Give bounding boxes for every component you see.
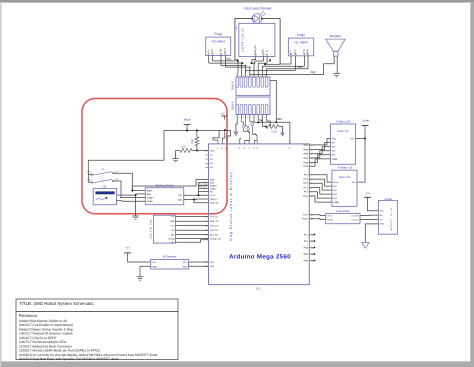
svg-text:32: 32 bbox=[205, 225, 207, 228]
pin PH6 of U1 bbox=[303, 161, 313, 164]
junction vbatt symbol bbox=[186, 130, 188, 132]
wire battery minus to ground below bbox=[135, 195, 137, 216]
svg-text:PL2: PL2 bbox=[304, 233, 309, 236]
wire bus drop 6 to J1 bbox=[257, 63, 259, 73]
svg-text:SDA: SDA bbox=[210, 265, 215, 268]
svg-text:GND: GND bbox=[152, 265, 157, 268]
wire vbatt rail to R motor bbox=[359, 138, 365, 182]
svg-text:U2: U2 bbox=[103, 185, 107, 188]
indicator LED DS3 bbox=[250, 118, 254, 125]
transistor Q2 bbox=[252, 126, 257, 141]
wire rail right end drop bbox=[227, 130, 231, 140]
svg-text:3: 3 bbox=[243, 116, 244, 119]
resistor R1 15K bbox=[191, 130, 199, 150]
svg-text:ENB: ENB bbox=[332, 158, 337, 161]
pin Gnd of Ping2 bbox=[294, 50, 297, 71]
module U3 LIDAR-Lite v2 bbox=[239, 23, 275, 56]
svg-text:ChgIn+: ChgIn+ bbox=[210, 184, 218, 187]
svg-text:PC3: PC3 bbox=[303, 186, 308, 189]
svg-text:Gnd: Gnd bbox=[225, 147, 228, 150]
pin Vin top of U1 bbox=[221, 141, 224, 150]
wire chg stat disp row 3 bbox=[178, 225, 209, 227]
module IR Detector bbox=[151, 260, 189, 270]
pin 40 top of U1 bbox=[256, 141, 259, 149]
wire U1 to R motor row 3 bbox=[314, 183, 332, 190]
pin Vss of R motor bbox=[352, 181, 359, 184]
svg-text:PB5: PB5 bbox=[304, 153, 309, 156]
pin 7 of J2 bbox=[260, 104, 264, 119]
pin 2 of U2 bbox=[117, 200, 123, 202]
wire chg stat disp row 6 bbox=[178, 237, 209, 239]
ground IR detector bbox=[137, 266, 144, 280]
svg-text:15K: 15K bbox=[191, 139, 194, 144]
svg-text:8: 8 bbox=[264, 116, 265, 119]
wire bus drop 4 to J1 bbox=[249, 67, 252, 73]
pin Hi Tx of shifter bbox=[327, 214, 333, 217]
wire U1 to L motor row 5 bbox=[314, 155, 331, 163]
pin 6 of J1 bbox=[256, 73, 260, 87]
svg-text:5.1K: 5.1K bbox=[271, 130, 277, 133]
pin Tx of VLidar bbox=[380, 218, 383, 221]
svg-text:Ping2: Ping2 bbox=[297, 33, 305, 37]
pin Gnd top of U1 bbox=[225, 141, 228, 150]
junction divider mid bbox=[196, 150, 198, 152]
svg-text:Vin: Vin bbox=[221, 147, 224, 150]
junction top bus e bbox=[269, 60, 271, 62]
wire Ping2 Gnd long run bbox=[246, 70, 296, 73]
svg-text:Orang: Orang bbox=[168, 237, 175, 240]
connector J1 TBLK-8 bbox=[236, 77, 270, 95]
pin In4 of L motor bbox=[332, 154, 336, 157]
wire bus drop 3 to J1 bbox=[245, 66, 248, 74]
module U2 charge monitor bbox=[93, 185, 116, 204]
svg-text:Pw: Pw bbox=[210, 190, 213, 193]
pin Grn of Chg Stat Disp bbox=[171, 225, 178, 228]
svg-text:IR Detector: IR Detector bbox=[163, 255, 177, 258]
wire U1 to L motor row 6 bbox=[314, 159, 331, 166]
resistor R3 5.1K bbox=[266, 125, 279, 134]
pin PB2 of U1 bbox=[304, 253, 316, 256]
pin GND of U3 bbox=[262, 49, 265, 61]
module DS4 Chg Stat Disp bbox=[154, 215, 176, 243]
pin 6 of J2 bbox=[256, 104, 260, 119]
svg-text:SDA: SDA bbox=[183, 265, 188, 268]
pin PH5 of U1 bbox=[303, 165, 313, 168]
pin PB7 of U1 bbox=[304, 144, 314, 147]
svg-text:+5v: +5v bbox=[366, 192, 371, 195]
wire Batt- stub into U1 bbox=[199, 182, 209, 184]
wire U1 to L motor row 1 bbox=[314, 138, 331, 145]
wire U1 to R motor row 6 bbox=[314, 196, 332, 202]
svg-text:Gry: Gry bbox=[311, 70, 316, 74]
svg-text:19: 19 bbox=[310, 218, 312, 221]
module Level Shifter bbox=[326, 213, 360, 223]
svg-text:Low Tx: Low Tx bbox=[352, 219, 360, 222]
wire left jog into Vbatt pin bbox=[213, 130, 219, 140]
svg-text:Gnd: Gnd bbox=[211, 49, 214, 53]
title block TITLE row bbox=[16, 299, 178, 312]
svg-text:02/13/18 Repl Batt Pack, Add S: 02/13/18 Repl Batt Pack, Add Speaker, De… bbox=[19, 357, 119, 361]
pin Batt+ of battery bbox=[147, 190, 153, 193]
mcu U1 Arduino Mega 2560 bbox=[209, 144, 310, 285]
junction bundle bbox=[198, 194, 200, 196]
svg-text:LIDAR-Lite v2: LIDAR-Lite v2 bbox=[240, 28, 244, 53]
pin ENB of R motor bbox=[333, 201, 338, 204]
wire ChgIn- stub into U1 bbox=[199, 188, 209, 190]
title block revisions box bbox=[16, 312, 178, 360]
svg-text:PL0: PL0 bbox=[304, 240, 309, 243]
pin 1 of J2 bbox=[235, 104, 239, 119]
svg-text:A0: A0 bbox=[205, 149, 207, 152]
wire LED anode loop left bbox=[235, 19, 252, 60]
svg-text:PL3: PL3 bbox=[304, 174, 309, 177]
window bottom edge strip bbox=[1, 361, 474, 367]
pin Chg Out of U1 bbox=[210, 202, 219, 205]
pin In2 of R motor bbox=[333, 189, 337, 192]
wire U1 to L motor row 3 bbox=[314, 147, 331, 154]
pin A3 of U1 bbox=[206, 162, 214, 165]
svg-text:Trig: Trig bbox=[303, 49, 306, 52]
pin Rx of VLidar bbox=[380, 214, 384, 217]
wire q1 to top pin bbox=[245, 140, 250, 142]
wire batt+ sense to arduino bbox=[132, 180, 208, 191]
pin Grn LCD of U1 bbox=[205, 225, 219, 228]
wire LED cathode loop right bbox=[262, 19, 280, 65]
wire battery bundle vertical bbox=[198, 183, 200, 196]
pin Low Tx of shifter bbox=[352, 219, 360, 222]
svg-text:HC-SR04: HC-SR04 bbox=[212, 40, 226, 44]
svg-text:ChgIn-: ChgIn- bbox=[147, 200, 154, 203]
svg-text:Yel: Yel bbox=[171, 229, 174, 232]
svg-text:Vbatt: Vbatt bbox=[184, 117, 191, 121]
pin 42 top of U1 bbox=[253, 141, 256, 149]
svg-text:Blu LCD: Blu LCD bbox=[210, 234, 219, 237]
wire U1 to L motor row 2 bbox=[314, 143, 331, 150]
svg-text:TxD1: TxD1 bbox=[303, 214, 309, 217]
pin 7 of J1 bbox=[260, 73, 264, 87]
svg-text:1c: 1c bbox=[288, 147, 291, 149]
pads Ping1 pins bbox=[208, 53, 226, 54]
wire long Wht to top pin bbox=[258, 122, 290, 144]
wire q2 to top pin bbox=[255, 140, 258, 142]
junction battery minus bbox=[135, 194, 137, 196]
svg-text:6: 6 bbox=[256, 116, 257, 119]
pin Yel of Chg Stat Disp bbox=[171, 229, 178, 232]
pin PC3 of U1 bbox=[303, 186, 313, 189]
pin PC1 of U1 bbox=[303, 178, 313, 181]
svg-text:Fn LCD: Fn LCD bbox=[210, 215, 218, 218]
svg-text:Chg In: Chg In bbox=[210, 198, 217, 201]
pads lidar pins bbox=[255, 54, 268, 55]
pin 5 of J2 bbox=[251, 104, 255, 119]
ground speaker bbox=[333, 74, 340, 77]
svg-text:ChgIn+: ChgIn+ bbox=[147, 196, 155, 199]
pin In1 of L motor bbox=[332, 141, 336, 144]
wire chg stat disp row 2 bbox=[178, 220, 209, 222]
wire U2 pin2 jog bbox=[121, 200, 123, 203]
svg-text:RxD1: RxD1 bbox=[303, 218, 309, 221]
pin 2 of J1 bbox=[239, 73, 243, 87]
wire Ping1 Gnd run bbox=[213, 60, 239, 62]
svg-text:4: 4 bbox=[247, 74, 248, 77]
pin Ena of R motor bbox=[333, 181, 338, 184]
svg-text:Batt-: Batt- bbox=[210, 181, 215, 184]
wire U2 pin1 junction bbox=[120, 194, 136, 195]
pin PB3 of U1 bbox=[304, 246, 316, 249]
pin ChgIn+ of battery bbox=[120, 196, 155, 199]
pads Ping2 pins bbox=[290, 53, 308, 54]
pin Wht of Chg Stat Disp bbox=[170, 220, 178, 223]
pin ENB of L motor bbox=[332, 158, 337, 161]
power +5v IR detector bbox=[124, 246, 131, 262]
pin SDA of IR detector bbox=[183, 265, 209, 268]
svg-text:44: 44 bbox=[247, 147, 250, 149]
pin PL0 of U1 bbox=[304, 240, 316, 243]
pin Fn LCD of U1 bbox=[205, 215, 218, 218]
wire divider to A0 pin bbox=[197, 150, 209, 152]
svg-text:PB3: PB3 bbox=[304, 246, 309, 249]
pin 5v of Ping2 bbox=[289, 50, 292, 64]
wire S1 pole B down bbox=[114, 181, 121, 198]
svg-text:Hi Rx: Hi Rx bbox=[327, 219, 333, 222]
wire Ping1 Echo run bbox=[225, 66, 250, 68]
module R Motor Ctrl bbox=[332, 170, 357, 206]
ground resistor R3 filled bbox=[279, 127, 285, 137]
svg-text:Wht LCD: Wht LCD bbox=[210, 220, 219, 223]
wire Ping1 5v run bbox=[209, 62, 243, 64]
wire J2 pin6 down to pin row bbox=[258, 118, 262, 122]
pin SCL of U1 bbox=[205, 261, 215, 264]
pin In3 of R motor bbox=[333, 193, 337, 196]
wire bus drop 8 to J1 bbox=[266, 72, 268, 73]
svg-text:2: 2 bbox=[239, 116, 240, 119]
wire shifter LowRx to lidar Rx bbox=[360, 214, 378, 216]
svg-text:PL7: PL7 bbox=[304, 191, 309, 194]
pin A7 of U1 bbox=[206, 154, 214, 157]
svg-text:21: 21 bbox=[205, 261, 207, 264]
indicator LED DS1 bbox=[241, 118, 245, 127]
wire Vbatt rail bbox=[164, 129, 231, 131]
pin Fn of Chg Stat Disp bbox=[172, 215, 178, 218]
junction batt+ sense bbox=[131, 190, 133, 192]
pin 5v of U3 bbox=[265, 49, 268, 63]
pin Pw of battery bbox=[179, 194, 209, 197]
wire chg stat disp row 4 bbox=[178, 229, 209, 231]
wire bus drop 7 to J1 bbox=[261, 70, 263, 73]
wire Ping2 5v run across bbox=[265, 63, 280, 65]
svg-text:Grn LCD: Grn LCD bbox=[210, 225, 219, 228]
pin Trig of Ping2 bbox=[303, 49, 306, 66]
pin Batt- of battery bbox=[136, 193, 152, 196]
junction wht wire bbox=[258, 121, 260, 123]
svg-text:6: 6 bbox=[256, 74, 257, 77]
wire TxD1 to shifter bbox=[309, 214, 325, 217]
pin A4 of U1 bbox=[206, 166, 214, 169]
svg-text:R Motor Ctl: R Motor Ctl bbox=[338, 166, 353, 170]
svg-text:34: 34 bbox=[205, 234, 207, 237]
pin PG1 of U1 bbox=[303, 195, 313, 198]
svg-text:Fn In: Fn In bbox=[210, 194, 216, 197]
svg-text:Orang LCD: Orang LCD bbox=[210, 237, 221, 240]
wire chg stat disp 12v bbox=[178, 240, 209, 242]
pin Vss of L motor bbox=[350, 137, 365, 140]
wire U1 to R motor row 5 bbox=[314, 192, 332, 198]
svg-text:Ena: Ena bbox=[333, 181, 338, 184]
wire loop right join bbox=[280, 63, 291, 65]
indicator LED DS2 bbox=[246, 118, 250, 130]
svg-text:1: 1 bbox=[235, 116, 236, 119]
wire J2 pin8 drop bbox=[267, 118, 271, 126]
pin Blu of Chg Stat Disp bbox=[171, 234, 178, 237]
pin Orang LCD of U1 bbox=[205, 237, 221, 240]
svg-text:35: 35 bbox=[205, 237, 207, 240]
svg-text:PG1: PG1 bbox=[303, 195, 308, 198]
wire J2 pin7 drop bbox=[263, 118, 266, 126]
module VLidar wheel scanner bbox=[378, 200, 397, 234]
pin PB4 of U1 bbox=[304, 157, 314, 160]
switch S1 DPDT pole B bbox=[87, 178, 118, 183]
svg-text:Yel LCD: Yel LCD bbox=[210, 229, 218, 232]
pin 8 of J1 bbox=[264, 73, 268, 87]
junction chg out bbox=[193, 199, 195, 201]
svg-text:5: 5 bbox=[251, 74, 252, 77]
pin SCL of IR detector bbox=[183, 261, 209, 264]
svg-text:Org: Org bbox=[226, 57, 231, 61]
wire lidar 5v run bbox=[258, 62, 267, 64]
pin A2 of U1 bbox=[206, 158, 214, 161]
wire battery Chg to arduino bbox=[197, 198, 209, 200]
pin 1 of J1 bbox=[235, 73, 239, 87]
svg-text:Chg: Chg bbox=[178, 198, 183, 201]
wire chg stat disp row 1 bbox=[178, 216, 209, 218]
svg-text:33: 33 bbox=[205, 229, 207, 232]
pin Pw sense of U1 bbox=[210, 190, 213, 193]
junction top bus a bbox=[237, 60, 239, 62]
sensor Ping1 HC-SR04 bbox=[206, 37, 231, 55]
module L Motor Ctrl bbox=[331, 124, 356, 164]
svg-text:HC-SR04: HC-SR04 bbox=[294, 41, 308, 45]
wire chg out to arduino bbox=[194, 199, 209, 202]
wire bus drop 5 to J1 bbox=[252, 63, 254, 73]
junction top bus d bbox=[264, 63, 266, 65]
pin Yel LCD of U1 bbox=[205, 229, 218, 232]
svg-text:10K: 10K bbox=[181, 146, 186, 149]
wire bus drop 1 to J1 bbox=[237, 61, 239, 73]
svg-text:3: 3 bbox=[243, 74, 244, 77]
svg-text:20: 20 bbox=[205, 265, 207, 268]
svg-text:8: 8 bbox=[264, 74, 265, 77]
svg-text:5: 5 bbox=[251, 116, 252, 119]
wire j2 pin2 to top pin bbox=[240, 139, 241, 141]
wire U1 to L motor row 4 bbox=[314, 151, 331, 158]
svg-text:U1: U1 bbox=[256, 286, 260, 290]
svg-text:PB6: PB6 bbox=[304, 149, 309, 152]
wire Pw stub into U1 bbox=[199, 191, 209, 193]
pin RxD1 of U1 bbox=[303, 218, 313, 221]
pin Fn In of U1 bbox=[210, 194, 216, 197]
junction vbatt red edge bbox=[224, 129, 226, 131]
pin Blu LCD of U1 bbox=[205, 234, 218, 237]
wire ChgIn+ stub into U1 bbox=[199, 185, 209, 187]
svg-text:Red Laser Pointer: Red Laser Pointer bbox=[244, 7, 272, 11]
pin Vbat A0 of U1 bbox=[205, 149, 215, 152]
wire lidar GND run bbox=[255, 61, 264, 64]
ground VLidar triangle bbox=[362, 243, 369, 249]
pin PL2 of U1 bbox=[304, 233, 316, 236]
wire U1 to R motor row 4 bbox=[314, 188, 332, 195]
svg-text:PWR_EN: PWR_EN bbox=[254, 45, 257, 55]
pin Orang of Chg Stat Disp bbox=[168, 237, 178, 240]
pin PD7 of U1 bbox=[303, 182, 313, 185]
pin 48 top of U1 bbox=[238, 141, 241, 149]
pin Ena of L motor bbox=[332, 137, 337, 140]
pin Wht LCD of U1 bbox=[205, 220, 219, 223]
svg-text:L Motor Ctl: L Motor Ctl bbox=[336, 119, 350, 123]
svg-text:Batt+: Batt+ bbox=[210, 178, 216, 181]
svg-text:Wheel Scnr: Wheel Scnr bbox=[390, 207, 393, 231]
svg-text:Batt+: Batt+ bbox=[147, 190, 153, 193]
svg-text:Sig: Sig bbox=[235, 27, 238, 30]
wire lidar PWR_EN down bbox=[252, 60, 256, 64]
pin Hi Rx of shifter bbox=[327, 219, 333, 222]
wire S1 pole B feed bbox=[88, 172, 91, 183]
svg-text:Low Rx: Low Rx bbox=[351, 214, 359, 217]
wire vbatt rail to switch bbox=[88, 130, 164, 171]
pin In3 of L motor bbox=[332, 150, 336, 153]
pin In1 of R motor bbox=[333, 185, 337, 188]
svg-text:30: 30 bbox=[205, 215, 207, 218]
power +5v VLidar bbox=[364, 192, 378, 211]
svg-text:31: 31 bbox=[205, 220, 207, 223]
svg-text:40: 40 bbox=[256, 147, 259, 149]
transistor Q1 bbox=[244, 128, 250, 141]
wire S1 pole A feed tap bbox=[88, 174, 91, 176]
svg-text:7: 7 bbox=[260, 74, 261, 77]
svg-text:Chg Out: Chg Out bbox=[210, 202, 219, 205]
pin Low Rx of shifter bbox=[351, 214, 359, 217]
battery pack BT1 bbox=[145, 188, 183, 205]
power Vbatt top bbox=[184, 117, 191, 130]
pin PB0 of U1 bbox=[304, 259, 316, 262]
pin Batt- sense of U1 bbox=[210, 181, 215, 184]
pin Gnd of Ping1 bbox=[211, 49, 214, 61]
svg-text:Hi Tx: Hi Tx bbox=[327, 214, 333, 217]
svg-text:Gnd: Gnd bbox=[294, 50, 297, 54]
svg-text:Chg Status Input & Display: Chg Status Input & Display bbox=[229, 171, 233, 240]
svg-text:5v: 5v bbox=[207, 50, 210, 52]
junction motor vss rail bbox=[364, 138, 366, 140]
pin 5 of J1 bbox=[251, 73, 255, 87]
svg-text:ChgIn-: ChgIn- bbox=[210, 187, 217, 190]
svg-text:TITLE: 4WD Robot System Schema: TITLE: 4WD Robot System Schematic bbox=[19, 301, 94, 306]
svg-text:Speaker: Speaker bbox=[329, 34, 342, 38]
pin Echo of Ping1 bbox=[224, 47, 227, 67]
wire loop left join bbox=[235, 59, 238, 61]
pin 3 of J1 bbox=[243, 73, 247, 87]
wire J1 right side riser bbox=[270, 81, 276, 123]
pin 4 of J2 bbox=[247, 104, 251, 119]
svg-text:Ena: Ena bbox=[332, 137, 337, 140]
svg-text:Wht: Wht bbox=[277, 117, 283, 121]
link S1 dpdt dashed bbox=[102, 174, 104, 181]
wire J2 pin5 down bbox=[254, 118, 258, 122]
svg-text:PB7: PB7 bbox=[304, 144, 309, 147]
svg-text:TBLK-8: TBLK-8 bbox=[232, 81, 235, 90]
svg-text:Vbat: Vbat bbox=[210, 149, 215, 152]
pin Gnd of VLidar bbox=[380, 223, 385, 226]
ground divider bbox=[172, 151, 178, 163]
svg-text:PH5: PH5 bbox=[303, 165, 308, 168]
